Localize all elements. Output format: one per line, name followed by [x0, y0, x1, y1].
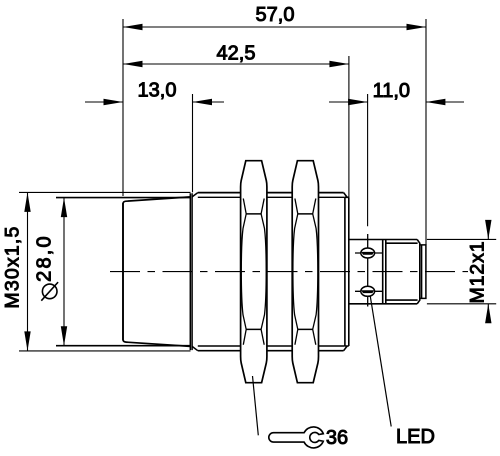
- label LED: [396, 426, 435, 448]
- dimension 42,5: [123, 56, 349, 197]
- LED 2 dark segment: [361, 290, 374, 293]
- dimension text 28,0: [33, 234, 55, 282]
- M12 thread stub: [420, 245, 426, 299]
- svg-text:57,0: 57,0: [256, 4, 295, 26]
- M30 thread root lines: [198, 197, 345, 346]
- svg-text:13,0: 13,0: [138, 80, 177, 102]
- dimension text 13,0: [138, 80, 177, 102]
- dimension text M12x1: [467, 240, 489, 303]
- dimension text 57,0: [256, 4, 295, 26]
- hex nut 1 face boundary lines: [246, 214, 261, 330]
- dimension 11,0: [329, 94, 464, 226]
- M30 thread barrel step groove: [190, 193, 198, 351]
- LED 1: [361, 248, 375, 258]
- barrel end face chamfer: [344, 193, 349, 351]
- M12 connector coupling nut: [383, 240, 420, 304]
- svg-text:42,5: 42,5: [217, 43, 256, 65]
- svg-text:M30x1,5: M30x1,5: [1, 225, 23, 308]
- M30 thread crest lines: [198, 193, 344, 351]
- svg-text:36: 36: [326, 427, 348, 449]
- hex nut 2 face boundary lines: [298, 214, 313, 330]
- dimension Ø28,0: [56, 198, 191, 346]
- hex nut 1 chamfer arcs: [241, 199, 266, 345]
- leader to wrench flats: [253, 376, 259, 435]
- wrench size text 36: [326, 427, 348, 449]
- dimension 13,0: [85, 94, 224, 192]
- svg-text:LED: LED: [396, 426, 435, 448]
- dimension text 42,5: [217, 43, 256, 65]
- dimension 57,0: [123, 19, 426, 245]
- LED 2: [361, 286, 375, 296]
- svg-text:28,0: 28,0: [33, 234, 55, 282]
- wrench symbol: [269, 427, 324, 448]
- rear housing cylinder: [349, 240, 417, 304]
- svg-text:M12x1: M12x1: [467, 240, 489, 303]
- hex nut 2 chamfer arcs: [293, 199, 318, 345]
- dimension text M30x1,5: [1, 225, 23, 308]
- LED 1 dark segment: [361, 252, 374, 255]
- centerline: [110, 271, 468, 273]
- dimension M12x1: [427, 220, 496, 323]
- diameter symbol: [41, 282, 58, 301]
- hex nut 1 silhouette: [241, 161, 267, 383]
- leader to LED: [370, 296, 391, 426]
- dimension M30x1,5: [19, 192, 191, 351]
- svg-text:11,0: 11,0: [373, 80, 410, 102]
- LED 1 crosshair: [355, 234, 383, 307]
- hex nut 2 silhouette: [292, 161, 318, 383]
- sensor head Ø28 front sleeve outline: [123, 197, 191, 347]
- dimension text 11,0: [373, 80, 410, 102]
